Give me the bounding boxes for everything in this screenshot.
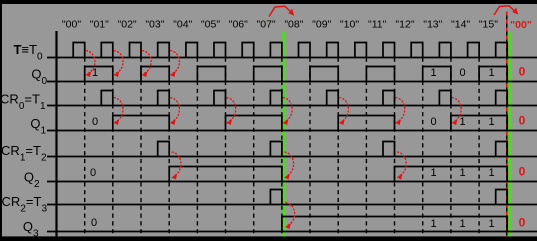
grid dashed line 08: [281, 58, 283, 237]
svg-text:"10": "10": [340, 19, 359, 31]
grid dashed line 09: [309, 58, 311, 237]
grid dashed line 06: [225, 58, 227, 237]
vertical axis: [55, 31, 57, 236]
svg-text:0: 0: [519, 165, 526, 179]
arrow T falling edge to Q0 toggle at t4: [170, 51, 179, 74]
grid dashed line 11: [365, 58, 367, 237]
grid dashed line 05: [196, 58, 198, 237]
svg-text:"07": "07": [257, 19, 276, 31]
svg-text:1: 1: [488, 116, 494, 128]
CR1=T2 waveform pulses: [158, 142, 508, 157]
svg-text:1: 1: [430, 218, 436, 230]
svg-text:"00": "00": [62, 19, 81, 31]
grid dashed line 10: [337, 58, 339, 237]
svg-text:1: 1: [430, 67, 436, 79]
CR0=T1 waveform pulses: [101, 91, 507, 106]
svg-text:0: 0: [459, 67, 465, 79]
Q0 waveform: [85, 67, 508, 82]
arc from state 07 to 08 label: [269, 6, 291, 16]
grid dashed line 01: [84, 58, 86, 237]
svg-text:"01": "01": [90, 19, 109, 31]
grid line 16 red dashes: [506, 12, 508, 237]
svg-text:"13": "13": [423, 19, 442, 31]
Q3 waveform: [282, 217, 507, 232]
baseline CR2: [47, 204, 537, 206]
baseline Q3: [47, 231, 537, 233]
svg-text:1: 1: [459, 167, 465, 179]
left border: [0, 0, 2, 241]
grid dashed line 13: [422, 58, 424, 237]
top border: [0, 0, 537, 4]
svg-text:"03": "03": [145, 19, 164, 31]
CR2=T3 waveform pulses: [270, 190, 507, 205]
svg-text:"09": "09": [312, 19, 331, 31]
svg-text:1: 1: [488, 218, 494, 230]
grid dashed line 03: [140, 58, 142, 237]
arrow T1 falling edge to Q1 toggle at t8: [283, 98, 292, 122]
arrow T1 falling edge to Q1 toggle at t4: [170, 98, 179, 122]
svg-text:"14": "14": [451, 19, 470, 31]
arrow T2 falling edge to Q2 toggle at t12: [397, 152, 406, 176]
svg-text:"05": "05": [201, 19, 220, 31]
svg-text:1: 1: [92, 67, 98, 79]
svg-text:1: 1: [488, 167, 494, 179]
svg-text:"06": "06": [229, 19, 248, 31]
svg-text:1: 1: [459, 116, 465, 128]
arrow T1 falling edge to Q1 toggle at t12: [396, 98, 405, 122]
svg-text:0: 0: [519, 114, 526, 128]
arc from state 15 to wrap 00 label: [494, 6, 514, 15]
svg-text:0: 0: [430, 116, 436, 128]
grid dashed line 04: [168, 58, 170, 237]
arrow T1 falling edge to Q1 toggle at t10: [339, 98, 348, 122]
grid dashed line 12: [394, 58, 396, 237]
arrow T2 falling edge to Q2 toggle at t4: [172, 152, 181, 176]
baseline Q1: [47, 130, 537, 132]
svg-text:0: 0: [519, 65, 526, 79]
arrow T falling edge to Q0 toggle at t1: [86, 51, 95, 74]
svg-text:"08": "08": [284, 19, 303, 31]
svg-text:"00": "00": [510, 19, 532, 31]
baseline Q2: [47, 181, 537, 183]
arrow T falling edge to Q0 toggle at t3: [142, 51, 151, 74]
arrow T1 falling edge to Q1 toggle at t2: [114, 98, 123, 122]
arrow T2 falling edge to Q2 toggle at t8: [284, 152, 293, 176]
baseline CR0: [47, 105, 537, 107]
arrow T1 falling edge to Q1 toggle at t14: [452, 98, 461, 122]
state number labels header: [62, 19, 498, 31]
Q2 waveform: [169, 167, 507, 182]
green marker line at wrap to 00: [508, 32, 511, 236]
svg-text:1: 1: [430, 167, 436, 179]
grid dashed line 14: [450, 58, 452, 237]
baseline Q0: [47, 81, 537, 83]
svg-text:0: 0: [519, 216, 526, 230]
svg-text:0: 0: [91, 217, 97, 229]
clock T waveform pulses: [73, 43, 507, 58]
svg-text:"11": "11": [368, 19, 387, 31]
baseline CR1: [47, 156, 537, 158]
svg-text:1: 1: [459, 218, 465, 230]
arrow T3 falling edge to Q3 toggle at t8: [285, 203, 294, 226]
Q1 waveform: [113, 116, 507, 131]
svg-text:0: 0: [92, 116, 98, 128]
grid dashed line 07: [253, 58, 255, 237]
green marker line at state 08 transition: [282, 32, 286, 237]
grid line 16 black dashes: [506, 12, 508, 237]
svg-text:0: 0: [90, 167, 96, 179]
svg-text:"04": "04": [173, 19, 192, 31]
arrow T falling edge to Q0 toggle at t2: [114, 51, 123, 74]
grid dashed line 02: [112, 58, 114, 237]
svg-text:1: 1: [488, 67, 494, 79]
grid dashed line 15: [478, 58, 480, 237]
bottom border: [0, 236, 537, 241]
svg-text:"12": "12": [395, 19, 414, 31]
arrow T1 falling edge to Q1 toggle at t6: [227, 98, 236, 122]
svg-text:"02": "02": [118, 19, 137, 31]
svg-text:"15": "15": [479, 19, 498, 31]
baseline T: [47, 57, 537, 59]
